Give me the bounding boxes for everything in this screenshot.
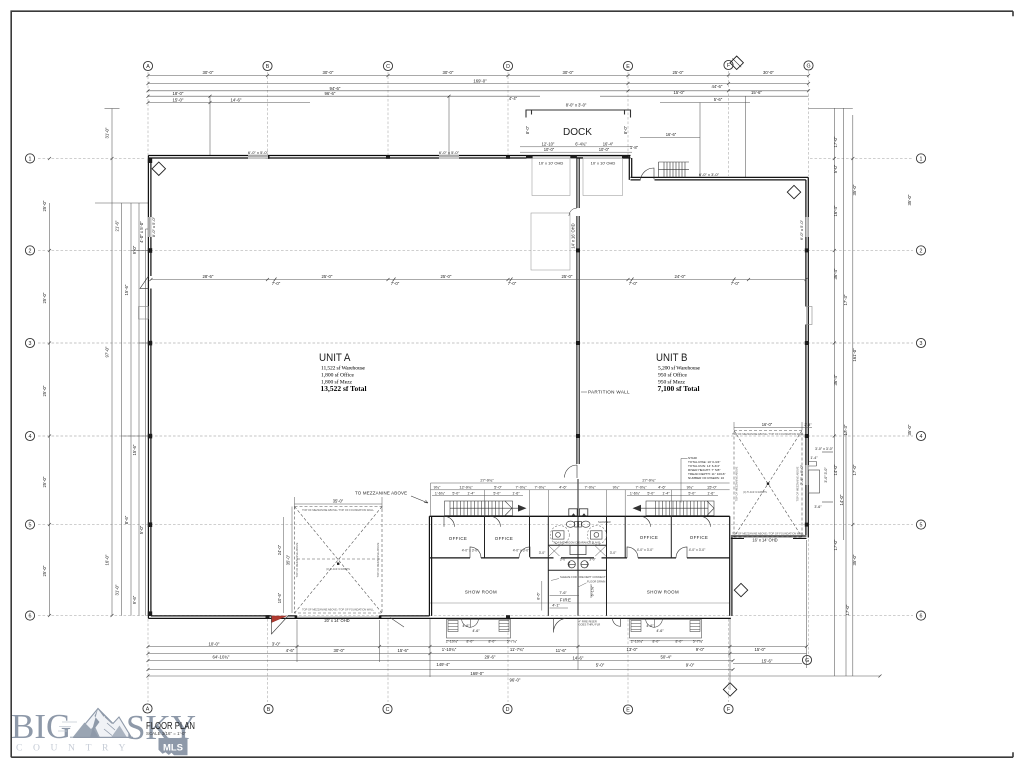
svg-text:4'-6": 4'-6" xyxy=(656,629,664,633)
svg-text:4'-0" x 3'-0": 4'-0" x 3'-0" xyxy=(689,548,706,552)
stair at top-right interior xyxy=(659,162,690,177)
svg-text:35'-0": 35'-0" xyxy=(286,554,291,565)
svg-text:1'-4": 1'-4" xyxy=(810,456,818,460)
svg-text:30'-0": 30'-0" xyxy=(323,70,334,75)
svg-text:1'-8": 1'-8" xyxy=(630,145,639,150)
svg-text:FLOOR DRAIN: FLOOR DRAIN xyxy=(587,579,605,583)
svg-text:15'-0": 15'-0" xyxy=(707,484,718,489)
svg-text:3'-0": 3'-0" xyxy=(560,558,567,562)
UNIT A text block xyxy=(319,352,367,393)
svg-text:5'-0": 5'-0" xyxy=(493,491,501,495)
svg-text:SHOW ROOM: SHOW ROOM xyxy=(647,590,679,595)
svg-text:10'-0": 10'-0" xyxy=(599,147,610,152)
right mezzanine dashed square xyxy=(734,431,802,538)
right wall exterior landing xyxy=(807,307,813,325)
column marks on walls xyxy=(148,155,809,618)
svg-text:8'-0": 8'-0" xyxy=(652,640,660,644)
vestibule door swings below restrooms xyxy=(549,546,606,556)
svg-text:8'-0" x 5'-0": 8'-0" x 5'-0" xyxy=(151,216,156,237)
svg-text:16'-0": 16'-0" xyxy=(762,422,773,427)
svg-text:10' x 10' OHD: 10' x 10' OHD xyxy=(539,160,564,165)
office labels xyxy=(449,535,709,603)
svg-text:96'-6": 96'-6" xyxy=(325,91,336,96)
svg-text:TOP OF MEZZANINE ABOVE: TOP OF MEZZANINE ABOVE xyxy=(796,466,800,501)
svg-text:OFFICE: OFFICE xyxy=(640,535,659,540)
svg-text:6: 6 xyxy=(920,614,923,620)
svg-text:UNIT A: UNIT A xyxy=(319,352,351,364)
dock leveler dashed boxes below dock doors xyxy=(532,159,570,196)
svg-text:9'-0": 9'-0" xyxy=(686,663,695,668)
svg-text:17'-0": 17'-0" xyxy=(852,464,857,475)
svg-text:25'-0": 25'-0" xyxy=(673,70,684,75)
svg-text:14'-6": 14'-6" xyxy=(231,98,242,103)
svg-text:6'-4¾": 6'-4¾" xyxy=(575,142,587,147)
svg-text:35'-0": 35'-0" xyxy=(907,194,912,205)
svg-text:15'-0": 15'-0" xyxy=(674,90,685,95)
svg-text:SHOWER: SHOWER xyxy=(598,520,611,524)
mountain xyxy=(58,709,133,738)
svg-text:4'-6": 4'-6" xyxy=(472,629,480,633)
grid row 4 xyxy=(38,435,913,437)
svg-text:3'-0": 3'-0" xyxy=(272,641,281,646)
svg-text:4'-4": 4'-4" xyxy=(509,96,518,101)
svg-text:97'-0": 97'-0" xyxy=(105,346,110,357)
svg-text:G: G xyxy=(806,63,810,69)
svg-text:C: C xyxy=(386,707,390,713)
grid bubbles top xyxy=(143,60,813,70)
svg-text:35'-0": 35'-0" xyxy=(907,424,912,435)
circular arrows in vestibule xyxy=(568,561,588,568)
svg-text:28'-6": 28'-6" xyxy=(203,274,214,279)
svg-text:17'-0": 17'-0" xyxy=(833,136,838,147)
mezzanine stairs above office block: right xyxy=(640,501,714,516)
grid col C xyxy=(387,72,389,155)
svg-text:36'-4": 36'-4" xyxy=(833,374,838,385)
left mezzanine dashed square xyxy=(295,507,383,614)
OHD jamb stubs bottom wall xyxy=(295,616,298,619)
svg-text:5: 5 xyxy=(920,523,923,529)
window labels above walls xyxy=(151,150,804,485)
svg-text:4'-0" x 3'-0": 4'-0" x 3'-0" xyxy=(513,549,530,553)
svg-text:12'-10": 12'-10" xyxy=(542,142,555,147)
door arcs on y=516 wall into offices xyxy=(444,516,711,527)
svg-text:16' x 14' OHD: 16' x 14' OHD xyxy=(752,538,777,543)
svg-text:50'-4": 50'-4" xyxy=(661,655,672,660)
dock small dims xyxy=(509,96,677,152)
outer walls xyxy=(429,516,732,616)
svg-text:7'-0": 7'-0" xyxy=(508,281,517,286)
svg-text:25'-0": 25'-0" xyxy=(42,565,47,576)
svg-text:25'-0": 25'-0" xyxy=(42,200,47,211)
svg-text:2: 2 xyxy=(920,248,923,254)
grid dashed lines xyxy=(38,71,913,703)
wall under right mezzanine square y=537 xyxy=(731,536,807,538)
svg-text:9¾": 9¾" xyxy=(687,484,694,489)
svg-text:5'-6": 5'-6" xyxy=(714,97,723,102)
svg-text:B: B xyxy=(267,707,271,713)
svg-text:8'-0": 8'-0" xyxy=(488,640,496,644)
svg-text:1'-4": 1'-4" xyxy=(467,491,475,495)
svg-text:15'-6": 15'-6" xyxy=(398,648,409,653)
svg-text:7'-0¾": 7'-0¾" xyxy=(516,484,528,489)
svg-text:25'-0": 25'-0" xyxy=(562,274,573,279)
svg-text:3'-0": 3'-0" xyxy=(539,551,546,555)
svg-text:5'-0": 5'-0" xyxy=(452,491,460,495)
svg-text:10' x 10' OHD: 10' x 10' OHD xyxy=(591,160,616,165)
svg-text:3'-0": 3'-0" xyxy=(610,551,617,555)
svg-text:OFFICE: OFFICE xyxy=(690,535,709,540)
restroom core walls y=516-545 xyxy=(570,545,586,554)
grid col B xyxy=(267,72,269,155)
top-right wall section (y178.6) xyxy=(629,156,808,180)
svg-text:5,200 sf Warehouse: 5,200 sf Warehouse xyxy=(658,364,701,371)
svg-text:TOP OF MEZZANINE ABOVE / TOP O: TOP OF MEZZANINE ABOVE / TOP OF FOUNDATI… xyxy=(732,532,804,536)
svg-text:TOP OF MEZZANINE ABOVE / TOP O: TOP OF MEZZANINE ABOVE / TOP OF FOUNDATI… xyxy=(302,608,374,612)
svg-text:8'-6": 8'-6" xyxy=(124,515,129,524)
office partitions xyxy=(485,479,672,616)
svg-text:NUMBER OF RISERS: 16: NUMBER OF RISERS: 16 xyxy=(688,476,724,480)
svg-text:2'-8": 2'-8" xyxy=(804,423,812,427)
svg-text:4'-6": 4'-6" xyxy=(646,624,654,628)
svg-text:25'-0": 25'-0" xyxy=(42,476,47,487)
svg-text:8'-0" x 3'-0": 8'-0" x 3'-0" xyxy=(566,103,587,108)
grid row 3 xyxy=(38,342,913,344)
left mezzanine dims xyxy=(284,497,383,613)
svg-text:2'-10¾": 2'-10¾" xyxy=(631,640,644,644)
svg-text:3'-6": 3'-6" xyxy=(814,505,822,509)
svg-text:161'-0": 161'-0" xyxy=(852,348,857,362)
svg-text:1'-6¾": 1'-6¾" xyxy=(630,491,641,495)
svg-text:1,800 sf Office: 1,800 sf Office xyxy=(321,371,355,378)
svg-text:16'-4": 16'-4" xyxy=(833,205,838,216)
bottom wall xyxy=(148,616,731,619)
svg-text:SCALE 3/16" = 1'-0": SCALE 3/16" = 1'-0" xyxy=(146,731,186,736)
svg-text:13,522 sf Total: 13,522 sf Total xyxy=(321,384,367,393)
svg-text:30'-0": 30'-0" xyxy=(334,648,345,653)
dim above right mezz square xyxy=(734,422,812,430)
svg-text:E: E xyxy=(626,707,630,713)
grid row 6 xyxy=(38,615,913,617)
svg-text:6'-1¾": 6'-1¾" xyxy=(591,585,595,596)
BIG SKY logo xyxy=(11,707,196,755)
keynote diamond top-right interior xyxy=(787,185,800,198)
svg-text:OFFICE: OFFICE xyxy=(449,536,468,541)
svg-text:ADA BATHROOM CLEARANCE PLANS: ADA BATHROOM CLEARANCE PLANS xyxy=(554,541,601,545)
svg-text:4'-1": 4'-1" xyxy=(552,604,560,608)
svg-text:3: 3 xyxy=(920,341,923,347)
top wall (y156.8) from A to dock end xyxy=(148,156,630,159)
svg-text:30'-0": 30'-0" xyxy=(443,70,454,75)
grid col F xyxy=(728,71,730,176)
partition wall xyxy=(577,158,579,464)
svg-text:4'-0" x 5'-0": 4'-0" x 5'-0" xyxy=(139,221,144,243)
svg-text:4'-0" x 3'-0": 4'-0" x 3'-0" xyxy=(637,548,654,552)
right wall of building xyxy=(806,177,808,537)
svg-text:15'-6": 15'-6" xyxy=(762,658,773,663)
window glazing marks xyxy=(148,155,809,485)
svg-text:TOP OF MEZZANINE ABOVE: TOP OF MEZZANINE ABOVE xyxy=(735,466,739,501)
svg-text:16'-6": 16'-6" xyxy=(666,132,677,137)
left wall exterior landing box xyxy=(139,307,149,320)
svg-text:9'-0": 9'-0" xyxy=(132,245,137,254)
svg-text:7'-6": 7'-6" xyxy=(559,591,567,595)
svg-text:6'-0" x 3'-0": 6'-0" x 3'-0" xyxy=(699,172,720,177)
dock step vertical wall xyxy=(629,156,631,180)
svg-text:B: B xyxy=(266,64,270,70)
sink counters xyxy=(553,531,565,539)
interior dimension string y=279.5 xyxy=(151,279,806,281)
svg-text:4'-0" x 3'-0": 4'-0" x 3'-0" xyxy=(462,549,479,553)
svg-text:4'-6": 4'-6" xyxy=(286,648,295,653)
svg-text:2'-10¾": 2'-10¾" xyxy=(446,640,459,644)
mezzanine edge line over showrooms xyxy=(430,602,730,604)
svg-text:4: 4 xyxy=(29,434,32,440)
extension lines above wall xyxy=(209,96,211,155)
dock door opening sills xyxy=(527,156,631,158)
svg-text:TOP OF MEZZANINE ABOVE / TOP O: TOP OF MEZZANINE ABOVE / TOP OF FOUNDATI… xyxy=(732,432,804,436)
grid row 1 xyxy=(38,157,146,159)
svg-text:12'-9¾": 12'-9¾" xyxy=(459,484,473,489)
porch dim texts xyxy=(446,624,704,644)
svg-text:6'-0" x 5'-0": 6'-0" x 5'-0" xyxy=(799,219,804,240)
keynote diamond right of office block xyxy=(734,583,747,596)
svg-text:3: 3 xyxy=(29,341,32,347)
svg-text:149'-4": 149'-4" xyxy=(436,662,450,667)
svg-text:35'-0": 35'-0" xyxy=(852,184,857,195)
svg-text:15'-6": 15'-6" xyxy=(132,444,137,455)
svg-text:25'-0": 25'-0" xyxy=(441,274,452,279)
svg-text:3'-0" x 3'-0": 3'-0" x 3'-0" xyxy=(815,447,834,451)
svg-text:SHOW ROOM: SHOW ROOM xyxy=(465,590,497,595)
top dimension lines xyxy=(105,76,809,178)
svg-text:94'-6": 94'-6" xyxy=(330,86,341,91)
svg-text:DOCK: DOCK xyxy=(563,126,592,138)
svg-text:7'-0": 7'-0" xyxy=(731,281,740,286)
svg-text:3'-0": 3'-0" xyxy=(589,558,596,562)
restroom fixtures xyxy=(550,521,606,544)
bottom dimension rows xyxy=(148,540,880,690)
svg-text:OFFICE: OFFICE xyxy=(495,536,514,541)
third dim rows above stairs xyxy=(432,495,718,497)
svg-text:8'-0": 8'-0" xyxy=(525,125,530,134)
svg-text:TOP OF MEZZANINE ABOVE / TOP O: TOP OF MEZZANINE ABOVE / TOP OF FOUNDATI… xyxy=(302,508,374,512)
svg-text:21'-6": 21'-6" xyxy=(115,220,120,231)
svg-text:169'-0": 169'-0" xyxy=(473,79,487,84)
entry porches below bottom wall: left xyxy=(447,618,511,638)
svg-text:29'-6": 29'-6" xyxy=(485,655,496,660)
svg-text:E: E xyxy=(626,64,630,70)
svg-text:4'-6": 4'-6" xyxy=(462,624,470,628)
grid bubbles right xyxy=(916,154,925,620)
grid col D xyxy=(507,72,509,155)
svg-text:10'-6": 10'-6" xyxy=(277,592,282,603)
grid col G xyxy=(808,71,810,176)
svg-text:C: C xyxy=(386,64,390,70)
STAIR note text block xyxy=(688,456,726,480)
svg-text:G: G xyxy=(805,658,809,664)
stair note leader xyxy=(681,459,688,503)
svg-text:17'-0": 17'-0" xyxy=(845,604,850,615)
svg-text:950 sf Office: 950 sf Office xyxy=(658,371,688,378)
svg-text:24'-0": 24'-0" xyxy=(675,274,686,279)
door swing top-right wall xyxy=(641,168,655,179)
svg-text:UNIT B: UNIT B xyxy=(656,352,688,364)
svg-text:TOP OF MEZZANINE ABOVE: TOP OF MEZZANINE ABOVE xyxy=(376,542,380,577)
fire room annotations xyxy=(560,575,606,627)
svg-text:31'-0": 31'-0" xyxy=(105,127,110,138)
svg-text:7'-0¾": 7'-0¾" xyxy=(535,484,547,489)
svg-text:25'-0": 25'-0" xyxy=(42,292,47,303)
svg-text:(4) 5'-0x3'-9 RAMPS: (4) 5'-0x3'-9 RAMPS xyxy=(743,490,767,494)
svg-text:14'-0": 14'-0" xyxy=(833,464,838,475)
svg-text:GOES THRU FLR: GOES THRU FLR xyxy=(579,623,601,627)
svg-text:6'-0" x 5'-0": 6'-0" x 5'-0" xyxy=(248,150,269,155)
svg-text:5'-0": 5'-0" xyxy=(596,663,605,668)
left wall xyxy=(148,156,151,619)
svg-text:5'-0": 5'-0" xyxy=(647,491,655,495)
svg-text:4'-6": 4'-6" xyxy=(658,484,666,489)
svg-text:4: 4 xyxy=(920,434,923,440)
svg-text:30'-0": 30'-0" xyxy=(203,70,214,75)
svg-text:36'-4": 36'-4" xyxy=(833,268,838,279)
svg-text:27'-9¾": 27'-9¾" xyxy=(480,478,494,483)
svg-text:25'-0": 25'-0" xyxy=(322,274,333,279)
top dimension texts xyxy=(173,70,775,103)
svg-text:11'-6": 11'-6" xyxy=(556,648,567,653)
svg-text:5: 5 xyxy=(29,523,32,529)
svg-text:5'-0": 5'-0" xyxy=(833,164,838,173)
svg-text:5'-7¾": 5'-7¾" xyxy=(507,640,518,644)
svg-text:(4) 5'-0x3'-9 RAMPS: (4) 5'-0x3'-9 RAMPS xyxy=(326,567,350,571)
stair dimension rows above office xyxy=(431,483,730,516)
svg-text:18'-0": 18'-0" xyxy=(173,91,184,96)
grid bubbles left xyxy=(25,154,34,620)
svg-text:14'-0": 14'-0" xyxy=(839,494,844,505)
svg-text:1: 1 xyxy=(920,156,923,162)
svg-text:1'-6": 1'-6" xyxy=(512,491,520,495)
svg-text:17'-0": 17'-0" xyxy=(833,539,838,550)
svg-text:30'-0": 30'-0" xyxy=(563,70,574,75)
svg-text:7'-0": 7'-0" xyxy=(391,281,400,286)
svg-text:6'-0" x 5'-0": 6'-0" x 5'-0" xyxy=(439,150,460,155)
right showroom exit door xyxy=(613,618,621,626)
svg-text:14'-6": 14'-6" xyxy=(573,656,584,661)
svg-text:24'-0": 24'-0" xyxy=(277,544,282,555)
svg-text:13'-0": 13'-0" xyxy=(627,647,638,652)
svg-text:TO MEZZANINE ABOVE: TO MEZZANINE ABOVE xyxy=(355,491,407,496)
svg-text:PARTITION WALL: PARTITION WALL xyxy=(588,390,630,395)
svg-text:7'-6" x 9'-0": 7'-6" x 9'-0" xyxy=(799,464,804,485)
svg-text:7'-0¾": 7'-0¾" xyxy=(585,484,597,489)
grid col E xyxy=(627,72,629,155)
svg-text:9¾": 9¾" xyxy=(434,484,441,489)
office door gaps + arcs on y=558 wall xyxy=(470,557,687,559)
svg-text:20' x 14' OHD: 20' x 14' OHD xyxy=(324,618,349,623)
svg-text:1'-4": 1'-4" xyxy=(662,491,670,495)
UNIT B text block xyxy=(656,352,701,393)
DOCK outline bracket xyxy=(526,110,631,118)
svg-text:7'-0": 7'-0" xyxy=(629,281,638,286)
svg-text:5'-0": 5'-0" xyxy=(688,491,696,495)
extension lines below wall xyxy=(296,620,298,662)
svg-text:1: 1 xyxy=(29,156,32,162)
svg-text:35'-0": 35'-0" xyxy=(333,499,344,504)
svg-text:TOP OF MEZZANINE ABOVE: TOP OF MEZZANINE ABOVE xyxy=(295,542,299,577)
svg-text:16'-4": 16'-4" xyxy=(603,142,614,147)
svg-text:1'-10¾": 1'-10¾" xyxy=(442,647,457,652)
svg-text:A: A xyxy=(146,64,150,70)
svg-text:9¾": 9¾" xyxy=(613,484,620,489)
svg-text:15'-6": 15'-6" xyxy=(124,284,129,295)
svg-text:7'-0": 7'-0" xyxy=(272,281,281,286)
svg-text:7'-0¾": 7'-0¾" xyxy=(636,484,648,489)
svg-text:D: D xyxy=(506,64,510,70)
svg-text:25'-0": 25'-0" xyxy=(42,385,47,396)
svg-text:3'-0" 3'-0": 3'-0" 3'-0" xyxy=(824,467,828,483)
right dimension column xyxy=(809,108,853,676)
svg-text:SLEEVE FOR FIRE DEPT CONNECT: SLEEVE FOR FIRE DEPT CONNECT xyxy=(560,575,606,579)
svg-text:15'-0": 15'-0" xyxy=(755,647,766,652)
svg-text:11'-7¾": 11'-7¾" xyxy=(510,647,525,652)
red door triangle at bottom-left door xyxy=(272,616,287,623)
svg-text:96'-0": 96'-0" xyxy=(510,677,521,682)
svg-text:11,522 sf Warehouse: 11,522 sf Warehouse xyxy=(321,364,366,371)
svg-text:8'-0": 8'-0" xyxy=(675,640,683,644)
grid bubbles bottom xyxy=(143,655,812,714)
right side door detail xyxy=(809,452,834,502)
MLS badge (montana shape) xyxy=(159,738,188,755)
left wall door at y276-288 xyxy=(140,276,148,288)
svg-text:10'-0": 10'-0" xyxy=(209,641,220,646)
grid row 2 xyxy=(38,249,913,251)
svg-text:30'-0": 30'-0" xyxy=(763,70,774,75)
svg-text:FIRE: FIRE xyxy=(560,598,572,603)
top dimension ticks xyxy=(147,74,811,105)
grid row 5 xyxy=(38,524,913,526)
svg-text:31'-0": 31'-0" xyxy=(115,584,120,595)
plumbing boxes above office wall xyxy=(569,509,577,516)
svg-text:1'-6": 1'-6" xyxy=(707,491,715,495)
toilets xyxy=(566,521,574,527)
fire exit door arc bottom xyxy=(553,618,565,632)
svg-text:6: 6 xyxy=(29,614,32,620)
svg-text:27'-9¾": 27'-9¾" xyxy=(642,478,656,483)
svg-text:8'-0": 8'-0" xyxy=(623,125,628,134)
grid col A xyxy=(147,72,149,155)
svg-text:9'-6": 9'-6" xyxy=(132,595,137,604)
svg-text:169'-0": 169'-0" xyxy=(470,671,484,676)
left dimension column xyxy=(50,109,149,616)
partition door arc at bottom end xyxy=(565,465,578,478)
svg-text:14' x 16' OHD: 14' x 16' OHD xyxy=(570,223,575,248)
partition door arc upper xyxy=(569,208,577,216)
svg-text:2: 2 xyxy=(29,248,32,254)
entry porches below bottom wall: right xyxy=(630,618,702,638)
svg-text:MLS: MLS xyxy=(163,743,183,754)
keynote diamond bottom (below office) xyxy=(723,683,736,696)
svg-text:4'-6": 4'-6" xyxy=(559,484,567,489)
svg-text:15'-6": 15'-6" xyxy=(751,90,762,95)
svg-text:5'-7¾": 5'-7¾" xyxy=(693,640,704,644)
extra right vertical dim lines xyxy=(844,108,846,676)
keynote diamond top-left interior xyxy=(152,162,165,175)
svg-text:7,100 sf Total: 7,100 sf Total xyxy=(658,384,700,393)
svg-text:64'-10¾": 64'-10¾" xyxy=(213,655,230,660)
svg-text:9'-0": 9'-0" xyxy=(696,647,705,652)
svg-text:16'-0": 16'-0" xyxy=(105,554,110,565)
svg-text:15'-0": 15'-0" xyxy=(173,98,184,103)
leader line near 390 xyxy=(390,618,404,628)
